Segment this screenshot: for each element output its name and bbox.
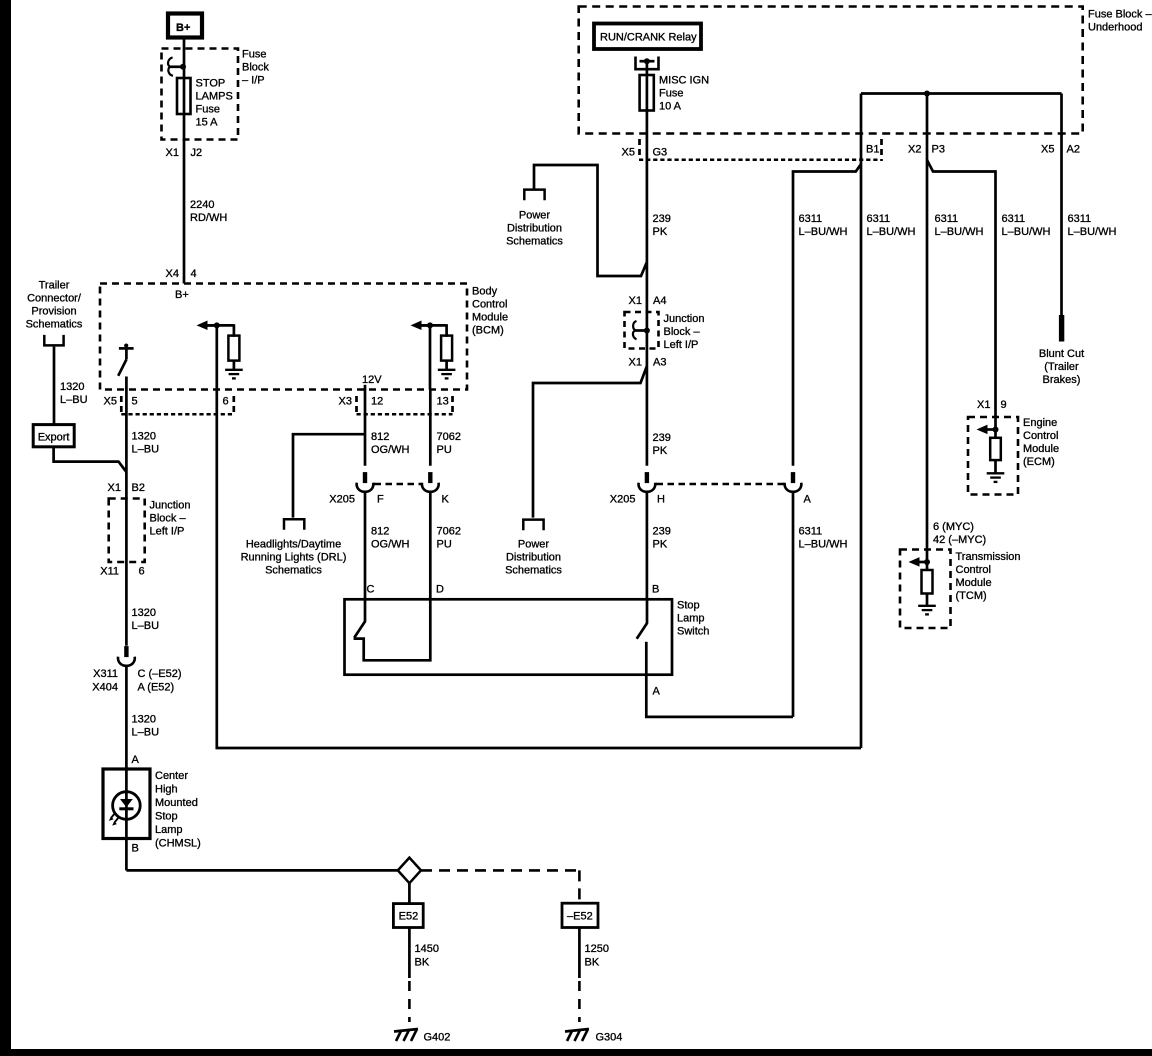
svg-text:Body: Body	[472, 286, 498, 298]
svg-text:Module: Module	[956, 577, 992, 589]
ground BCM 1	[225, 370, 243, 379]
svg-text:X1: X1	[629, 357, 642, 369]
inline connector X205 F	[357, 472, 374, 492]
fuse block underhood dashed box	[579, 7, 1083, 134]
dashed wire to G402	[408, 981, 411, 1022]
svg-text:10 A: 10 A	[659, 101, 682, 113]
svg-text:Fuse: Fuse	[659, 88, 683, 100]
BCM internal arrow left group 2	[411, 321, 432, 331]
wire DRL branch	[293, 434, 365, 517]
wire A2 drop	[1060, 94, 1063, 316]
svg-text:PK: PK	[653, 539, 668, 551]
dashed wire diamond to -E52	[421, 869, 579, 872]
svg-text:1320: 1320	[132, 607, 156, 619]
junction dot ECM	[993, 427, 999, 433]
wire A down to stop switch A	[792, 491, 795, 717]
svg-text:6311: 6311	[799, 526, 823, 538]
svg-text:12V: 12V	[362, 374, 382, 386]
wire BCM pin 5 stub	[125, 377, 128, 390]
wire F to switch pin C	[364, 491, 367, 599]
svg-text:Fuse Block –: Fuse Block –	[1088, 9, 1152, 21]
svg-text:PK: PK	[653, 445, 668, 457]
wire P3 drop to TCM	[926, 94, 929, 571]
svg-text:BK: BK	[585, 957, 600, 969]
ground TCM	[918, 606, 936, 615]
svg-text:X5: X5	[1041, 144, 1054, 156]
wire 12V stub	[364, 385, 367, 390]
svg-text:A2: A2	[1067, 144, 1080, 156]
svg-text:B1: B1	[866, 144, 879, 156]
svg-text:X1: X1	[108, 482, 121, 494]
svg-text:6311: 6311	[935, 213, 959, 225]
svg-text:Schematics: Schematics	[265, 565, 322, 577]
svg-text:A3: A3	[653, 357, 666, 369]
fuse block IP dashed box	[162, 49, 239, 140]
svg-text:Block –: Block –	[150, 513, 187, 525]
wire B+ to fuse and down to BCM pin X4-4	[183, 39, 186, 284]
svg-text:B+: B+	[176, 22, 190, 34]
svg-text:Control: Control	[1023, 430, 1058, 442]
svg-text:Provision: Provision	[31, 306, 76, 318]
ground G304	[565, 1029, 589, 1041]
svg-text:6311: 6311	[867, 213, 891, 225]
svg-text:D: D	[436, 584, 444, 596]
resistor BCM 2	[441, 336, 452, 361]
junction dot MISC IGN	[644, 58, 650, 64]
svg-text:L–BU: L–BU	[132, 444, 160, 456]
svg-text:Stop: Stop	[155, 811, 178, 823]
svg-text:(BCM): (BCM)	[472, 325, 504, 337]
off-page bracket trailer	[44, 335, 63, 346]
fuse MISC IGN 10A	[640, 75, 654, 111]
Export box	[33, 425, 74, 447]
junction dot fuse clip	[180, 64, 186, 70]
svg-text:X1: X1	[629, 295, 642, 307]
svg-text:Underhood: Underhood	[1088, 22, 1142, 34]
resistor BCM 1	[228, 336, 239, 361]
svg-text:X205: X205	[329, 494, 355, 506]
svg-text:1320: 1320	[60, 381, 84, 393]
svg-text:Control: Control	[472, 299, 507, 311]
svg-text:2240: 2240	[190, 199, 214, 211]
junction block left IP small dashed box	[625, 312, 659, 349]
connector band BCM X3	[355, 396, 358, 414]
page edge bar bottom	[0, 1049, 1152, 1056]
svg-text:PK: PK	[653, 226, 668, 238]
junction block bus symbol	[634, 329, 647, 332]
svg-text:X5: X5	[104, 396, 117, 408]
svg-text:Headlights/Daytime: Headlights/Daytime	[246, 539, 341, 551]
svg-text:B+: B+	[175, 289, 189, 301]
svg-text:A (E52): A (E52)	[138, 682, 175, 694]
svg-text:239: 239	[653, 213, 671, 225]
-E52 box	[562, 903, 598, 927]
wire trailer to Export	[53, 347, 56, 425]
wire pin A to 6311 wire	[646, 675, 793, 717]
junction block left IP dashed box	[109, 499, 145, 563]
TCM dashed box	[900, 550, 951, 629]
svg-text:L–BU: L–BU	[132, 727, 160, 739]
svg-text:PU: PU	[437, 444, 452, 456]
switch contact B-A inside	[646, 599, 649, 623]
svg-text:Mounted: Mounted	[155, 797, 198, 809]
svg-text:Block –: Block –	[664, 326, 701, 338]
svg-text:239: 239	[653, 432, 671, 444]
svg-text:42 (–MYC): 42 (–MYC)	[933, 534, 986, 546]
svg-text:RUN/CRANK Relay: RUN/CRANK Relay	[600, 32, 697, 44]
svg-text:A: A	[132, 754, 140, 766]
svg-text:RD/WH: RD/WH	[190, 212, 227, 224]
svg-text:4: 4	[191, 268, 197, 280]
svg-text:B2: B2	[132, 482, 145, 494]
svg-text:P3: P3	[932, 144, 945, 156]
svg-text:L–BU/WH: L–BU/WH	[867, 226, 916, 238]
wire diamond to E52	[408, 883, 411, 903]
off-page bracket power distribution lower	[523, 520, 543, 531]
blunt cut end bar	[1059, 315, 1064, 342]
svg-text:Junction: Junction	[150, 500, 191, 512]
svg-text:L–BU/WH: L–BU/WH	[1002, 226, 1051, 238]
svg-text:OG/WH: OG/WH	[371, 444, 410, 456]
svg-text:Left I/P: Left I/P	[150, 526, 185, 538]
svg-text:X311: X311	[93, 668, 118, 680]
svg-text:Module: Module	[472, 312, 508, 324]
svg-text:STOP: STOP	[196, 78, 226, 90]
svg-text:C: C	[367, 584, 375, 596]
svg-text:Block: Block	[242, 62, 269, 74]
svg-text:MISC IGN: MISC IGN	[659, 75, 709, 87]
connector band BCM X5	[120, 396, 123, 414]
svg-text:7062: 7062	[437, 431, 461, 443]
B+ power symbol box	[168, 14, 202, 38]
resistor ECM	[990, 438, 1001, 460]
svg-text:1450: 1450	[415, 943, 439, 955]
svg-text:LAMPS: LAMPS	[196, 91, 233, 103]
dashed connector line F-K	[375, 483, 422, 486]
svg-text:Switch: Switch	[677, 626, 709, 638]
ECM dashed box	[968, 417, 1018, 495]
wire BCM pin12 to connector F	[364, 390, 367, 466]
inline connector X205 A	[785, 472, 802, 492]
connector band underhood dotted	[639, 159, 880, 162]
svg-text:(CHMSL): (CHMSL)	[155, 838, 201, 850]
junction dot TCM	[924, 559, 930, 565]
dashed connector line H-A	[657, 483, 784, 486]
svg-text:Blunt Cut: Blunt Cut	[1039, 348, 1084, 360]
svg-text:12: 12	[371, 396, 383, 408]
svg-text:Module: Module	[1023, 443, 1059, 455]
svg-text:Power: Power	[518, 539, 550, 551]
svg-text:– I/P: – I/P	[242, 75, 265, 87]
E52 box	[393, 904, 423, 928]
inline connector X311 X404	[118, 646, 135, 666]
svg-text:Schematics: Schematics	[505, 565, 562, 577]
svg-text:Brakes): Brakes)	[1043, 374, 1081, 386]
svg-text:B: B	[132, 843, 139, 855]
svg-text:Connector/: Connector/	[27, 293, 82, 305]
wire Export to node B2	[54, 447, 127, 472]
fuse clip hooks	[168, 57, 173, 66]
page edge bar left	[0, 0, 11, 1056]
svg-text:Left I/P: Left I/P	[664, 339, 699, 351]
svg-text:X205: X205	[610, 494, 636, 506]
wire connector to CHMSL	[125, 665, 128, 870]
svg-text:Transmission: Transmission	[956, 551, 1021, 563]
resistor TCM	[922, 570, 933, 594]
svg-text:Control: Control	[956, 564, 991, 576]
svg-text:BK: BK	[415, 957, 430, 969]
svg-text:812: 812	[371, 431, 389, 443]
svg-text:5: 5	[132, 396, 138, 408]
svg-text:L–BU: L–BU	[60, 394, 88, 406]
svg-text:High: High	[155, 784, 178, 796]
svg-text:6311: 6311	[1068, 213, 1092, 225]
dashed wire to G304	[578, 981, 581, 1022]
CHMSL lamp box	[103, 769, 150, 839]
svg-text:B: B	[652, 584, 659, 596]
svg-text:F: F	[377, 494, 384, 506]
svg-text:9: 9	[1001, 399, 1007, 411]
svg-text:C (–E52): C (–E52)	[138, 668, 182, 680]
svg-text:X11: X11	[100, 566, 119, 578]
svg-text:L–BU/WH: L–BU/WH	[1068, 226, 1117, 238]
svg-text:15 A: 15 A	[196, 117, 219, 129]
splice diamond E52	[398, 858, 421, 884]
inline connector X205 K	[422, 472, 439, 492]
wire CHMSL B to splice diamond	[126, 869, 397, 872]
branch to power distribution upper	[534, 165, 647, 276]
svg-text:X2: X2	[908, 144, 921, 156]
svg-text:6: 6	[223, 396, 229, 408]
svg-text:7062: 7062	[437, 526, 461, 538]
ECM internal arrow	[977, 425, 998, 435]
svg-text:1250: 1250	[585, 943, 609, 955]
svg-text:Fuse: Fuse	[242, 49, 266, 61]
svg-text:Stop: Stop	[677, 600, 700, 612]
junction dot bus	[644, 328, 650, 334]
junction dot pin6	[214, 322, 220, 328]
off-page bracket power distribution upper	[524, 190, 544, 201]
wire E52 down	[408, 928, 411, 979]
wire BCM pin6 long run	[217, 325, 861, 748]
svg-text:(ECM): (ECM)	[1023, 456, 1055, 468]
svg-text:6 (MYC): 6 (MYC)	[933, 521, 974, 533]
svg-text:X1: X1	[166, 147, 179, 159]
svg-text:G402: G402	[424, 1032, 451, 1044]
BCM internal arrow left group 1	[197, 321, 218, 331]
branch to power distribution lower	[533, 366, 647, 518]
svg-text:E52: E52	[399, 911, 419, 923]
svg-text:Schematics: Schematics	[26, 319, 83, 331]
wire -E52 down	[578, 928, 581, 979]
svg-text:Lamp: Lamp	[677, 613, 705, 625]
svg-text:X1: X1	[977, 399, 990, 411]
svg-text:Running Lights (DRL): Running Lights (DRL)	[241, 552, 347, 564]
ground G402	[394, 1029, 418, 1041]
junction dot pin13	[427, 322, 433, 328]
svg-text:Lamp: Lamp	[155, 824, 183, 836]
svg-text:1320: 1320	[132, 714, 156, 726]
svg-text:Distribution: Distribution	[506, 552, 561, 564]
svg-text:Power: Power	[519, 210, 551, 222]
svg-text:Fuse: Fuse	[196, 104, 220, 116]
svg-text:A: A	[804, 494, 812, 506]
svg-text:Schematics: Schematics	[506, 236, 563, 248]
BCM internal switch at pin 5	[124, 344, 128, 348]
svg-text:1320: 1320	[132, 431, 156, 443]
BCM dashed box	[100, 284, 467, 390]
wire B1 drop	[860, 94, 863, 749]
wire BCM pin13 to connector K	[429, 390, 432, 466]
svg-text:Engine: Engine	[1023, 417, 1057, 429]
svg-text:13: 13	[437, 396, 449, 408]
fuse holder bracket MISC IGN	[636, 57, 659, 70]
wire BCM pin5 down to connector X311	[125, 390, 128, 646]
svg-text:G304: G304	[596, 1032, 623, 1044]
svg-text:6: 6	[139, 566, 145, 578]
svg-text:J2: J2	[191, 147, 203, 159]
TCM internal arrow	[909, 557, 930, 567]
svg-text:Export: Export	[38, 432, 70, 444]
wire MISC IGN fuse down to connector H	[646, 61, 649, 466]
svg-text:PU: PU	[437, 539, 452, 551]
wire BCM pin13 internal	[429, 325, 432, 389]
wire H to switch pin B	[646, 491, 649, 599]
svg-text:X3: X3	[339, 396, 352, 408]
svg-text:6311: 6311	[799, 213, 823, 225]
svg-text:L–BU/WH: L–BU/WH	[935, 226, 984, 238]
svg-text:A4: A4	[653, 295, 666, 307]
fuse STOP LAMPS 15A	[177, 78, 191, 114]
svg-text:X5: X5	[622, 147, 635, 159]
svg-text:X404: X404	[92, 682, 118, 694]
ground BCM 2	[438, 370, 456, 379]
branch B1 to connector A	[793, 164, 861, 466]
svg-text:L–BU/WH: L–BU/WH	[799, 539, 848, 551]
svg-text:X4: X4	[166, 268, 179, 280]
LED symbol CHMSL	[113, 792, 141, 820]
svg-text:Trailer: Trailer	[39, 280, 70, 292]
svg-text:OG/WH: OG/WH	[371, 539, 410, 551]
underhood internal bus wire	[861, 92, 1062, 95]
svg-text:–E52: –E52	[567, 911, 593, 923]
svg-text:G3: G3	[653, 147, 668, 159]
svg-text:(Trailer: (Trailer	[1044, 361, 1079, 373]
switch contact C-D inside	[364, 599, 367, 621]
svg-text:Junction: Junction	[664, 313, 705, 325]
svg-text:L–BU: L–BU	[132, 620, 160, 632]
ground ECM	[987, 473, 1005, 482]
svg-text:Center: Center	[155, 770, 188, 782]
junction dot underhood	[924, 91, 930, 97]
stop lamp switch box	[345, 599, 673, 674]
svg-text:A: A	[653, 686, 661, 698]
svg-text:L–BU/WH: L–BU/WH	[799, 226, 848, 238]
svg-text:239: 239	[653, 526, 671, 538]
svg-text:H: H	[657, 494, 665, 506]
wire K to switch pin D	[429, 491, 432, 599]
svg-text:812: 812	[371, 526, 389, 538]
branch P3 to ECM	[927, 160, 996, 438]
svg-text:K: K	[442, 494, 450, 506]
svg-text:Distribution: Distribution	[507, 223, 562, 235]
off-page bracket DRL	[284, 519, 304, 530]
inline connector X205 H	[639, 472, 656, 492]
svg-text:(TCM): (TCM)	[956, 590, 987, 602]
svg-text:6311: 6311	[1002, 213, 1026, 225]
RUN/CRANK Relay box	[594, 24, 701, 50]
